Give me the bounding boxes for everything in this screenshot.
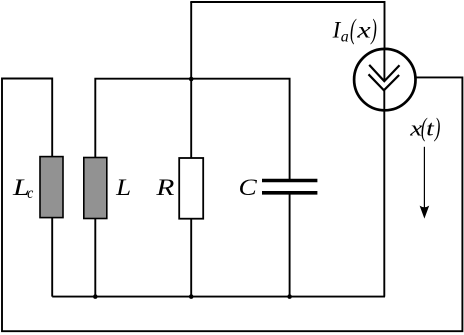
svg-text:x: x <box>356 17 371 43</box>
svg-text:t: t <box>426 117 435 141</box>
svg-text:a: a <box>341 29 349 46</box>
svg-text:): ) <box>370 13 377 45</box>
svg-text:R: R <box>155 174 174 200</box>
svg-text:c: c <box>27 185 33 202</box>
svg-text:(: ( <box>350 13 357 45</box>
svg-text:L: L <box>115 176 131 201</box>
svg-text:): ) <box>433 112 440 142</box>
svg-text:C: C <box>239 175 258 200</box>
